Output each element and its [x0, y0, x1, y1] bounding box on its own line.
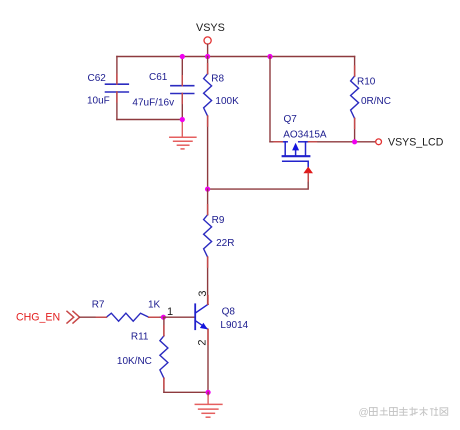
svg-text:R10: R10 [357, 77, 376, 88]
junction (R10 bottom) [352, 139, 357, 144]
svg-text:VSYS_LCD: VSYS_LCD [388, 136, 444, 148]
node CHG_EN [16, 311, 80, 323]
transistor Q7 (P-MOSFET AO3415A) [282, 114, 327, 173]
wire cap bottom [117, 119, 182, 121]
junction (base node) [161, 315, 166, 320]
wire to Q7 source [270, 141, 282, 143]
resistor R9 [204, 189, 235, 304]
ground (below Q8) [195, 392, 222, 417]
svg-text:1K: 1K [148, 299, 161, 310]
wire right branch down [269, 57, 271, 142]
svg-text:47uF/16v: 47uF/16v [132, 98, 174, 109]
svg-text:10uF: 10uF [87, 95, 110, 106]
junction (gate node) [205, 187, 210, 192]
junction (VSYS) [205, 54, 210, 59]
svg-text:3: 3 [197, 290, 209, 296]
svg-text:Q8: Q8 [222, 307, 236, 318]
svg-text:CHG_EN: CHG_EN [16, 311, 60, 323]
svg-text:L9014: L9014 [220, 320, 248, 331]
resistor R7 [80, 299, 164, 321]
component pin stubs (bright red) [96, 64, 354, 389]
resistor R11 [117, 317, 168, 392]
svg-text:R8: R8 [211, 74, 224, 85]
svg-text:10K/NC: 10K/NC [117, 356, 152, 367]
svg-text:1: 1 [167, 306, 173, 318]
resistor R8 [204, 57, 239, 190]
svg-text:@: @ [359, 408, 369, 419]
svg-text:R7: R7 [92, 299, 105, 310]
svg-text:R11: R11 [131, 331, 149, 342]
wire emitter down [207, 329, 209, 392]
ground (below C61) [170, 120, 196, 149]
svg-text:Q7: Q7 [284, 114, 298, 125]
junction (emitter/ground) [206, 390, 211, 395]
junction (right branch) [267, 54, 272, 59]
node VSYS [196, 22, 225, 57]
svg-text:22R: 22R [216, 238, 234, 249]
wire bottom [164, 391, 208, 393]
capacitor C62 [87, 57, 128, 120]
capacitor C61 [132, 57, 193, 120]
svg-text:AO3415A: AO3415A [283, 130, 327, 141]
svg-text:100K: 100K [215, 96, 239, 107]
svg-text:0R/NC: 0R/NC [361, 96, 391, 107]
svg-text:C61: C61 [149, 72, 168, 83]
svg-text:R9: R9 [212, 215, 225, 226]
junction (C61 top) [180, 54, 185, 59]
svg-text:2: 2 [197, 339, 209, 345]
node VSYS_LCD [376, 136, 444, 148]
svg-text:VSYS: VSYS [196, 22, 225, 34]
wire Q7 drain to VSYS_LCD [309, 141, 376, 143]
wire collector up [207, 303, 209, 305]
transistor Q8 (NPN L9014) [195, 304, 248, 331]
watermark [359, 407, 448, 418]
resistor R10 [351, 57, 391, 142]
junction (C61 bottom) [180, 117, 185, 122]
wire Q7 gate down and left [208, 173, 309, 189]
wire base [163, 316, 194, 318]
svg-text:C62: C62 [88, 73, 107, 84]
wire top bus [117, 56, 355, 58]
